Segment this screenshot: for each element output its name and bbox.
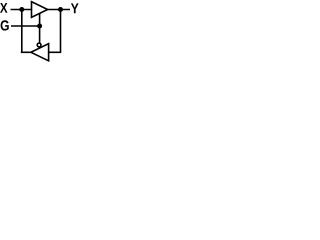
wire bottom-right horizontal to U2 input — [49, 51, 62, 53]
inverting bubble on U2 enable — [37, 43, 41, 47]
wire G horizontal — [11, 25, 40, 27]
node X junction — [19, 7, 24, 12]
node Y junction — [58, 7, 63, 12]
wire node X vertical drop — [21, 10, 23, 53]
wire X to buffer U1 input — [11, 9, 32, 11]
wire node Y vertical drop — [60, 10, 62, 53]
node X label — [0, 3, 8, 13]
node Y label — [71, 3, 79, 13]
node G label — [1, 20, 9, 30]
circuit: bidirectional tri-state buffer pair — [0, 0, 80, 62]
wire G enable down to U2 bubble — [39, 26, 41, 44]
wire G enable up to U1 — [39, 14, 41, 27]
node G junction — [37, 24, 42, 29]
wire bottom-left horizontal to U2 output — [21, 51, 31, 53]
wire U1 output to Y — [48, 9, 71, 11]
buffer U2 tri-state (left-pointing, Y to X) — [31, 44, 49, 61]
buffer U1 tri-state (right-pointing, X to Y) — [32, 2, 48, 18]
